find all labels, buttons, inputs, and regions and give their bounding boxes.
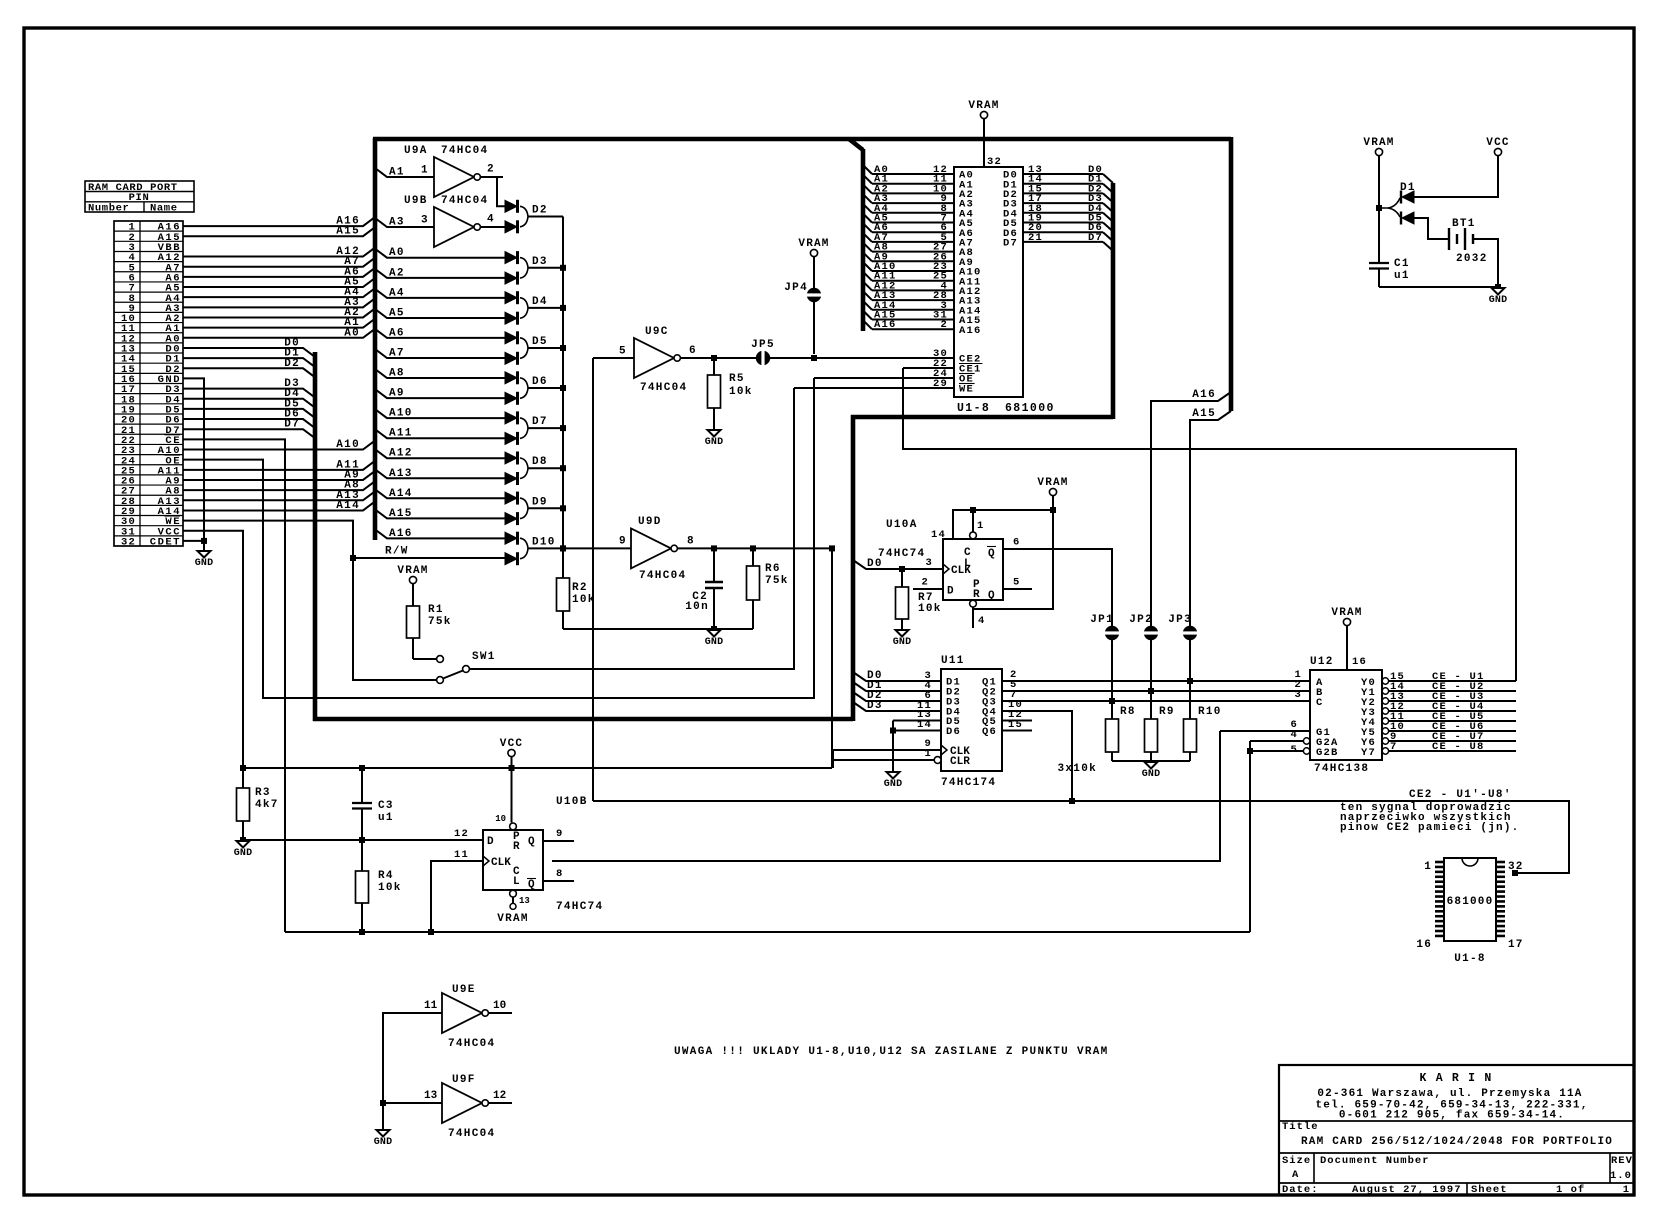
svg-text:10: 10	[493, 1000, 506, 1012]
svg-text:16: 16	[1416, 939, 1432, 951]
resistor R9 10k	[1145, 688, 1175, 761]
svg-text:UWAGA !!! UKLADY U1-8,U10,U12: UWAGA !!! UKLADY U1-8,U10,U12 SA ZASILAN…	[674, 1046, 1109, 1058]
svg-text:74HC04: 74HC04	[441, 145, 488, 157]
svg-text:A8: A8	[389, 368, 405, 380]
32-pin connector table	[114, 221, 183, 549]
wire port pin 1 A16 to address bus	[183, 216, 375, 228]
wire bus exit A8	[375, 368, 505, 380]
jumper JP1	[1090, 614, 1120, 640]
RAM pin 5 A7	[863, 232, 974, 250]
svg-text:U1-8: U1-8	[1454, 953, 1486, 965]
svg-text:JP1: JP1	[1090, 614, 1114, 626]
wire U10B Q! pin 8 stub	[543, 868, 574, 881]
wire U9D input	[563, 536, 631, 549]
wire port pin 14 D1 to data bus	[183, 348, 315, 368]
svg-text:3: 3	[925, 557, 933, 569]
diode pair D6	[505, 371, 563, 405]
svg-text:11: 11	[454, 849, 469, 861]
svg-text:75k: 75k	[765, 575, 789, 587]
svg-text:13: 13	[424, 1090, 438, 1102]
ground symbol below R3	[234, 841, 253, 859]
svg-text:16: 16	[1352, 656, 1367, 668]
svg-text:GND: GND	[1142, 769, 1161, 780]
RAM pin 25 A11	[863, 271, 982, 289]
wire U9E input ground line	[383, 1013, 442, 1130]
svg-text:PIN: PIN	[129, 192, 150, 204]
wire port pin 17 D3 to data bus	[183, 378, 315, 398]
svg-text:K A R I N: K A R I N	[1420, 1072, 1493, 1085]
wire port pin 8 A4 to address bus	[183, 287, 375, 299]
wire bus exit A16 to JP2	[1151, 389, 1231, 691]
RAM address bus	[849, 139, 863, 331]
svg-text:Y7: Y7	[1361, 747, 1376, 759]
svg-text:pinow CE2 pamieci (jn).: pinow CE2 pamieci (jn).	[1340, 822, 1519, 834]
resistor R8 10k	[1106, 698, 1136, 761]
svg-text:A14: A14	[389, 488, 413, 500]
inverter U9B 74HC04	[404, 195, 488, 247]
svg-text:VRAM: VRAM	[497, 913, 529, 925]
RAM pin 20 D6	[1003, 222, 1113, 241]
svg-text:5: 5	[1013, 577, 1021, 589]
svg-text:14: 14	[917, 719, 932, 731]
svg-text:D2: D2	[532, 205, 548, 217]
RAM chip U1-8 681000 body	[954, 167, 1055, 415]
svg-text:U10A: U10A	[886, 519, 918, 531]
svg-text:JP4: JP4	[784, 282, 808, 294]
svg-text:75k: 75k	[428, 616, 452, 628]
wire R8-R10 ground rail	[1057, 761, 1190, 775]
wire bus exit A14	[375, 488, 505, 500]
svg-text:12: 12	[454, 828, 469, 840]
wire bus exit A5	[375, 308, 505, 320]
wire VCC riser to U9D out	[831, 548, 833, 768]
svg-text:U9A: U9A	[404, 145, 428, 157]
wire U11 input D0 pin 3	[853, 670, 941, 682]
svg-text:U10B: U10B	[556, 796, 588, 808]
wire U12 G2B	[1250, 744, 1303, 756]
junction C line JP1	[1109, 698, 1115, 704]
svg-text:VRAM: VRAM	[1331, 607, 1362, 619]
svg-text:D7: D7	[1088, 232, 1103, 244]
svg-text:u1: u1	[378, 812, 394, 824]
svg-text:17: 17	[1508, 939, 1524, 951]
wire U12 Y5 CE - U6	[1389, 721, 1516, 733]
svg-text:3: 3	[421, 215, 428, 227]
svg-text:D3: D3	[867, 700, 883, 712]
junction R6 top	[750, 545, 756, 551]
svg-text:R4: R4	[378, 870, 394, 882]
wire U10A Q! pin6 to JP1	[1003, 537, 1112, 702]
ground symbol 3x10k	[1142, 762, 1161, 780]
RAM pin 26 A9	[863, 251, 974, 269]
wire port pin 16 GND down	[183, 378, 204, 551]
wire port pin 6 A6 to address bus	[183, 266, 375, 278]
RAM pin 17 D3	[1003, 193, 1113, 212]
svg-text:GND: GND	[884, 779, 903, 790]
junction C3 top	[359, 765, 365, 771]
wire U11 input D1 pin 4	[853, 680, 941, 692]
diode pair D4	[505, 291, 563, 325]
jumper JP4	[784, 282, 822, 302]
wire bus exit A15	[375, 508, 505, 520]
RAM data bus vertical	[1111, 183, 1116, 419]
ground symbol U9EF	[374, 1130, 393, 1148]
wire port pin 9 A3 to address bus	[183, 297, 375, 309]
wire U11 CLK pin 9	[833, 738, 941, 750]
wire VCC rail	[243, 767, 832, 769]
wire port pin 2 A15 to address bus	[183, 226, 375, 238]
jumper JP3	[1168, 614, 1198, 640]
wire U10A pin1 CL	[973, 510, 985, 532]
wire U11 Q2 to U12 B	[1002, 679, 1310, 691]
svg-text:4k7: 4k7	[255, 799, 279, 811]
wire U9D output	[677, 536, 832, 549]
svg-text:VCC: VCC	[1486, 137, 1509, 149]
svg-text:D: D	[487, 836, 494, 848]
wire U10A CLK pin3 from D0	[853, 557, 943, 570]
svg-text:Date:: Date:	[1282, 1184, 1319, 1196]
svg-text:21: 21	[1028, 232, 1043, 244]
wire CE1 to U12 Y0 (CE - U1 net)	[903, 368, 1516, 681]
wire bus exit A7	[375, 348, 505, 360]
wire port pin 30 WE down to switch	[183, 521, 436, 680]
junction R5 tap	[711, 355, 717, 361]
inverter U9A 74HC04	[404, 145, 488, 197]
svg-text:CDET: CDET	[150, 537, 181, 549]
wire U10A Q pin5 stub	[1003, 577, 1032, 590]
svg-text:D4: D4	[532, 296, 548, 308]
svg-text:9: 9	[619, 536, 626, 548]
junction R4 bottom	[359, 929, 365, 935]
junction battery ground	[1495, 284, 1501, 290]
capacitor C1 u1	[1369, 258, 1410, 287]
svg-text:1: 1	[977, 520, 985, 532]
svg-text:C1: C1	[1394, 258, 1410, 270]
jumper JP2	[1129, 614, 1159, 640]
wire U11 CLR pin 1	[833, 748, 934, 760]
hex D flip-flop U11 74HC174	[934, 655, 1002, 789]
svg-text:WE: WE	[959, 384, 974, 396]
svg-text:7: 7	[1390, 741, 1398, 753]
svg-text:A4: A4	[389, 287, 405, 299]
svg-text:1 of: 1 of	[1556, 1184, 1585, 1196]
wire port pin 10 A2 to address bus	[183, 307, 375, 319]
svg-text:GND: GND	[705, 437, 724, 448]
junction C3 bottom	[359, 837, 365, 843]
resistor R2 10k	[557, 548, 596, 629]
svg-text:R9: R9	[1159, 706, 1175, 718]
RAM pin 6 A6	[863, 222, 974, 240]
svg-text:D9: D9	[532, 496, 548, 508]
svg-text:R10: R10	[1198, 706, 1222, 718]
wire U12 Y6 CE - U7	[1389, 731, 1516, 743]
svg-text:A15: A15	[1192, 408, 1216, 420]
svg-text:9: 9	[556, 828, 564, 840]
wire U11 Q3 to U12 C	[1002, 689, 1310, 701]
RAM control pin 29 WE	[933, 378, 975, 396]
jumper JP5	[751, 339, 775, 366]
node VRAM above U12	[1331, 607, 1362, 626]
wire port pin 32 CDET	[183, 540, 204, 542]
svg-text:A13: A13	[389, 468, 413, 480]
svg-text:Size: Size	[1282, 1155, 1311, 1167]
wire U11 D5 D6 to ground	[890, 709, 941, 772]
wire port pin 27 A8 to address bus	[183, 480, 375, 492]
wire bus exit A9	[375, 388, 505, 400]
svg-text:74HC174: 74HC174	[941, 777, 996, 789]
svg-text:U1-8: U1-8	[957, 402, 990, 415]
svg-text:02-361 Warszawa, ul. Przemyska: 02-361 Warszawa, ul. Przemyska 11A	[1317, 1088, 1582, 1100]
svg-text:74HC74: 74HC74	[556, 901, 603, 913]
svg-text:11: 11	[424, 1000, 438, 1012]
svg-text:3x10k: 3x10k	[1057, 763, 1097, 775]
svg-text:15: 15	[1008, 719, 1023, 731]
wire diode common cathode line	[562, 217, 564, 549]
svg-text:5: 5	[1290, 744, 1298, 756]
svg-text:L: L	[513, 876, 520, 888]
svg-text:5: 5	[619, 346, 626, 358]
svg-text:A0: A0	[389, 247, 405, 259]
node VRAM battery	[1363, 137, 1394, 156]
junction U9D out to VCC riser	[829, 545, 835, 551]
wire VRAM to CE2 line	[813, 257, 815, 355]
resistor R10 10k	[1184, 678, 1222, 761]
diode pair D8	[505, 452, 563, 486]
battery BT1 2032	[1449, 218, 1488, 265]
svg-text:CE2 - U1'-U8': CE2 - U1'-U8'	[1409, 789, 1512, 801]
svg-text:D7: D7	[284, 419, 300, 431]
svg-text:U9F: U9F	[452, 1074, 476, 1086]
svg-text:CE - U8: CE - U8	[1432, 741, 1485, 753]
RAM pin 18 D4	[1003, 203, 1113, 222]
svg-text:C3: C3	[378, 800, 394, 812]
svg-text:74HC04: 74HC04	[448, 1128, 495, 1140]
svg-text:2032: 2032	[1456, 253, 1488, 265]
wire U12 Y1 CE - U2	[1389, 681, 1516, 693]
wire bus exit A11	[375, 428, 505, 440]
svg-text:8: 8	[687, 536, 694, 548]
svg-text:10n: 10n	[685, 601, 709, 613]
junction pin1 rail	[970, 507, 976, 513]
svg-text:Q: Q	[988, 548, 995, 560]
svg-text:D5: D5	[532, 336, 548, 348]
svg-text:A0: A0	[344, 327, 360, 339]
wire U12 Y2 CE - U3	[1389, 691, 1516, 703]
svg-text:BT1: BT1	[1452, 218, 1476, 230]
wire U9B output to D2	[480, 214, 505, 228]
svg-text:R2: R2	[572, 582, 588, 594]
wire U10B CLK riser	[431, 849, 483, 932]
junction CLK riser	[428, 929, 434, 935]
RAM pin 11 A1	[863, 174, 974, 192]
svg-text:A1: A1	[389, 167, 405, 179]
junction R/W tap	[350, 555, 356, 561]
svg-text:74HC04: 74HC04	[640, 382, 687, 394]
data bus top horizontal	[851, 415, 1113, 420]
wire bus exit A15 to JP3	[1190, 408, 1231, 681]
ground symbol U11 inputs	[884, 772, 903, 790]
wire rail to U11 CLK CLR	[832, 750, 834, 768]
wire U11 Q6 stub	[1002, 719, 1032, 731]
svg-text:GND: GND	[1489, 295, 1508, 306]
svg-text:VRAM: VRAM	[397, 565, 428, 577]
wire VCC down to U10B PR	[511, 757, 513, 823]
wire battery to ground	[1473, 239, 1498, 287]
svg-text:JP3: JP3	[1168, 614, 1192, 626]
svg-text:R/W: R/W	[385, 546, 409, 558]
svg-text:A16: A16	[874, 319, 897, 331]
RAM pin 13 D0	[1003, 164, 1113, 183]
RAM pin 8 A4	[863, 203, 974, 221]
wire bus exit A3	[375, 217, 434, 229]
wire U10A pin14 VCC	[931, 510, 1053, 541]
wire VCC to D1	[1414, 156, 1498, 198]
wire R3 to U10B D pin 12	[243, 828, 483, 840]
svg-text:JP2: JP2	[1129, 614, 1153, 626]
RAM pin 7 A5	[863, 213, 974, 231]
svg-text:2: 2	[940, 319, 948, 331]
wire VRAM down	[1052, 496, 1054, 511]
RAM pin 3 A14	[863, 300, 982, 318]
svg-text:G2B: G2B	[1316, 747, 1339, 759]
wire bus exit A4	[375, 287, 505, 299]
svg-text:CLK: CLK	[491, 857, 511, 869]
wire U11 Q4 to CE2 line	[1002, 699, 1072, 801]
wire port pin 12 A0 to address bus	[183, 327, 375, 339]
svg-text:74HC04: 74HC04	[448, 1038, 495, 1050]
wire port pin 4 A12 to address bus	[183, 246, 375, 258]
wire bus exit A1	[375, 167, 434, 179]
RAM CARD PORT PIN table header	[85, 181, 194, 215]
wire D1 to battery	[1414, 218, 1449, 239]
svg-text:August 27, 1997: August 27, 1997	[1352, 1184, 1462, 1196]
svg-text:Title: Title	[1282, 1121, 1319, 1133]
wire port pin 25 A11 to address bus	[183, 459, 375, 471]
svg-text:74HC04: 74HC04	[441, 195, 488, 207]
node VCC above U10B	[500, 738, 523, 757]
wire port pin 11 A1 to address bus	[183, 317, 375, 329]
RAM pin 28 A13	[863, 290, 982, 308]
svg-text:Q: Q	[528, 836, 535, 848]
address bus vertical	[373, 138, 378, 540]
RAM pin 15 D2	[1003, 183, 1113, 202]
capacitor C2 10n	[685, 548, 723, 629]
diode pair D2	[505, 200, 563, 234]
RAM pin 2 A16	[863, 319, 982, 337]
svg-text:A16: A16	[1192, 389, 1216, 401]
svg-text:D6: D6	[946, 726, 961, 738]
svg-text:U9B: U9B	[404, 195, 428, 207]
svg-text:32: 32	[1508, 861, 1524, 873]
svg-text:Number: Number	[88, 203, 129, 215]
svg-text:4: 4	[487, 214, 494, 226]
junction U9D input	[560, 545, 566, 551]
svg-text:A15: A15	[389, 508, 413, 520]
junction A line JP3	[1187, 678, 1193, 684]
svg-text:4: 4	[978, 615, 986, 627]
RAM pin 31 A15	[863, 310, 982, 328]
U12 input pin numbers	[1294, 669, 1302, 701]
svg-text:Q6: Q6	[982, 726, 997, 738]
svg-text:Document Number: Document Number	[1320, 1155, 1430, 1167]
wire battery bottom rail	[1379, 286, 1498, 288]
svg-text:D0: D0	[867, 558, 883, 570]
svg-text:GND: GND	[234, 848, 253, 859]
svg-text:VRAM: VRAM	[1363, 137, 1394, 149]
svg-text:D1: D1	[1400, 182, 1416, 194]
svg-text:A2: A2	[389, 267, 405, 279]
svg-text:0-601 212 905, fax 659-34-14.: 0-601 212 905, fax 659-34-14.	[1339, 1110, 1565, 1122]
switch SW1	[437, 651, 496, 683]
RAM pin 10 A2	[863, 183, 974, 201]
ground symbol battery	[1489, 288, 1508, 306]
junction C2 ground	[711, 626, 717, 632]
svg-text:VRAM: VRAM	[798, 238, 829, 250]
svg-text:1: 1	[1623, 1184, 1630, 1196]
wire U12 Y4 CE - U5	[1389, 711, 1516, 723]
wire U11 input D2 pin 6	[853, 690, 941, 702]
svg-text:A6: A6	[389, 327, 405, 339]
wire port pin 28 A13 to address bus	[183, 490, 375, 502]
wire bus exit A16	[375, 528, 505, 540]
dual diode D1	[1379, 182, 1416, 225]
svg-text:GND: GND	[195, 558, 214, 569]
svg-text:2: 2	[487, 164, 494, 176]
resistor R6 75k	[747, 548, 789, 629]
svg-text:R6: R6	[765, 563, 781, 575]
svg-text:1.0: 1.0	[1610, 1170, 1632, 1182]
svg-text:R8: R8	[1120, 706, 1136, 718]
svg-text:A11: A11	[389, 428, 413, 440]
wire U9C input	[593, 357, 634, 359]
wire port pin 7 A5 to address bus	[183, 277, 375, 289]
wire U9F output stub	[488, 1090, 512, 1103]
svg-text:VRAM: VRAM	[1037, 477, 1068, 489]
junction R3 top	[240, 765, 246, 771]
inverter U9F 74HC04	[424, 1074, 495, 1140]
wire bus exit A6	[375, 327, 505, 339]
svg-text:12: 12	[493, 1090, 506, 1102]
wire VRAM to U12 pin16	[1346, 626, 1348, 671]
wire port pin 26 A9 to address bus	[183, 469, 375, 481]
diode pair D10	[505, 532, 563, 566]
svg-text:A14: A14	[336, 500, 360, 512]
RAM pin 4 A12	[863, 280, 982, 298]
wire port pin 24 OE to RAM OE	[183, 378, 814, 698]
RAM control pin 24 OE	[933, 368, 975, 386]
svg-text:REV: REV	[1611, 1155, 1633, 1167]
svg-text:32: 32	[121, 537, 136, 549]
wire R2 bottom to ground rail	[563, 628, 753, 630]
svg-text:74HC74: 74HC74	[878, 548, 925, 560]
RAM pin 14 D1	[1003, 174, 1113, 193]
svg-text:R1: R1	[428, 604, 444, 616]
wire U12 G2A	[1250, 729, 1303, 741]
capacitor C3 u1	[352, 768, 394, 840]
svg-text:D7: D7	[1003, 238, 1018, 250]
svg-text:u1: u1	[1394, 270, 1410, 282]
wire port pin 22 CE down to CE rail	[183, 439, 285, 932]
svg-text:D3: D3	[532, 256, 548, 268]
junction U9F input	[380, 1100, 386, 1106]
svg-text:A16: A16	[959, 325, 982, 337]
svg-text:1: 1	[924, 748, 932, 760]
diode pair D3	[505, 251, 563, 285]
svg-text:U9C: U9C	[645, 326, 669, 338]
svg-text:GND: GND	[374, 1137, 393, 1148]
node VRAM pin 32	[968, 100, 999, 119]
svg-text:1: 1	[421, 165, 428, 177]
